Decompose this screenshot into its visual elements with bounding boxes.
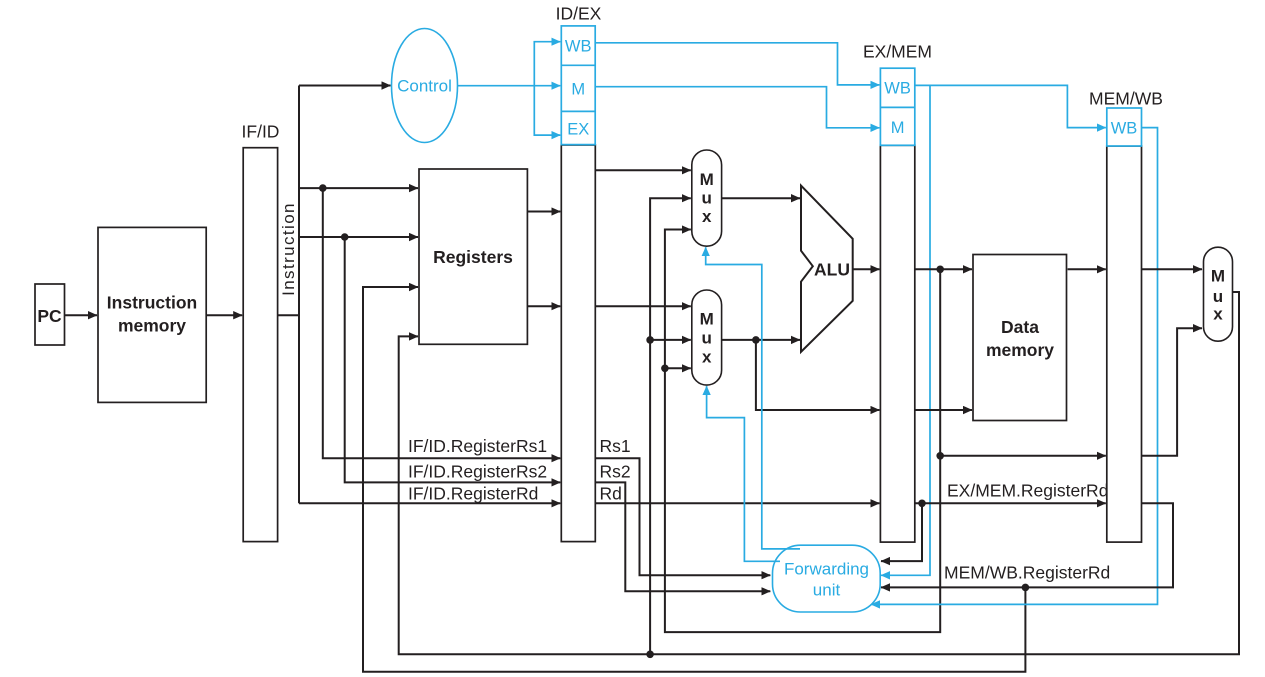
svg-text:x: x <box>702 207 712 226</box>
svg-text:ID/EX: ID/EX <box>556 4 602 24</box>
forwarding unit <box>773 545 881 612</box>
svg-text:EX: EX <box>567 121 589 139</box>
wire ID/EX WB to EX/MEM WB <box>595 43 879 85</box>
junction forward write-back mux B <box>646 336 654 344</box>
wire ID/EX M to EX/MEM M <box>595 87 879 128</box>
junction write-back branch to forwarding muxes <box>646 651 654 659</box>
wire mux B to ALU <box>722 339 800 341</box>
control unit Control <box>392 29 458 143</box>
mux A (ForwardA) <box>692 150 722 246</box>
svg-text:Rs2: Rs2 <box>600 462 631 482</box>
svg-text:IF/ID.RegisterRs1: IF/ID.RegisterRs1 <box>408 436 547 456</box>
block Instruction memory <box>98 227 206 402</box>
mux write-back <box>1204 247 1233 341</box>
svg-text:M: M <box>700 170 714 189</box>
wire forward from write-back to mux B <box>650 339 691 341</box>
register PC <box>35 284 65 345</box>
block Registers <box>419 169 527 344</box>
pipeline register EX/MEM <box>863 42 932 543</box>
svg-text:u: u <box>702 189 712 208</box>
wire EX/MEM.RegisterRd to MEM/WB <box>915 481 1109 504</box>
svg-text:EX/MEM.RegisterRd: EX/MEM.RegisterRd <box>947 481 1108 501</box>
svg-text:ALU: ALU <box>814 260 850 280</box>
svg-text:Control: Control <box>397 77 452 96</box>
svg-text:MEM/WB: MEM/WB <box>1089 89 1163 109</box>
svg-text:u: u <box>702 329 712 348</box>
wire Registers read data 2 to ID/EX <box>527 305 560 307</box>
svg-text:IF/ID.RegisterRs2: IF/ID.RegisterRs2 <box>408 462 547 482</box>
wire IF/ID.RegisterRd <box>299 484 560 504</box>
svg-text:M: M <box>571 81 585 99</box>
wire forward from EX/MEM ALU result to mux A <box>665 230 940 633</box>
svg-text:IF/ID: IF/ID <box>242 122 280 142</box>
wire ID/EX read data 1 to mux A <box>595 169 691 171</box>
wire ALU result to EX/MEM <box>853 268 880 270</box>
svg-text:M: M <box>1211 267 1225 286</box>
wire Data memory read data to MEM/WB <box>1068 268 1106 270</box>
wire EX/MEM ALU result to Data memory <box>915 268 972 270</box>
wire mux A to ALU <box>722 197 800 199</box>
svg-text:unit: unit <box>813 581 841 600</box>
wire EX/MEM WB to MEM/WB WB <box>915 85 1106 127</box>
svg-text:x: x <box>1213 305 1223 324</box>
pipeline register ID/EX control fields WB M EX <box>561 26 595 145</box>
wire ID/EX read data 2 to mux B <box>595 305 691 307</box>
pipeline register MEM/WB control field WB <box>1107 108 1142 146</box>
wire Rs1 to forwarding unit <box>595 436 770 575</box>
svg-text:MEM/WB.RegisterRd: MEM/WB.RegisterRd <box>944 563 1110 583</box>
wire MEM/WB.RegisterRd to forwarding unit <box>881 503 1173 587</box>
svg-text:x: x <box>702 348 712 367</box>
wire MEM/WB WB to forwarding unit <box>871 128 1158 605</box>
junction MEM/WB.RegisterRd branch <box>1022 584 1030 592</box>
svg-text:memory: memory <box>118 316 186 336</box>
wire Rs2 to forwarding unit <box>595 462 770 592</box>
pipeline register MEM/WB <box>1089 89 1163 543</box>
svg-text:WB: WB <box>884 80 911 98</box>
svg-text:Instruction: Instruction <box>107 293 197 313</box>
wire EX/MEM.RegisterRd to forwarding unit <box>881 503 922 561</box>
junction Rs1 branch <box>319 184 327 192</box>
junction ALU result to MEM/WB <box>936 452 944 460</box>
pipeline register ID/EX <box>556 4 602 542</box>
wire Control to ID/EX WB M EX <box>458 42 561 135</box>
pipeline register IF/ID <box>242 122 280 542</box>
wire write register from MEM/WB.RegisterRd <box>363 287 1025 672</box>
wire PC to Instruction memory <box>65 314 98 316</box>
wire write data from write-back mux <box>399 292 1239 654</box>
wire Registers read data 1 to ID/EX <box>527 211 560 213</box>
wire MEM/WB read data to write-back mux <box>1142 268 1203 270</box>
svg-text:memory: memory <box>986 340 1054 360</box>
svg-text:M: M <box>700 310 714 329</box>
wire forward from EX/MEM ALU result to mux B <box>665 367 691 369</box>
svg-text:Instruction: Instruction <box>279 202 298 296</box>
svg-text:Registers: Registers <box>433 247 513 267</box>
wire forward from write-back to mux A <box>650 198 691 654</box>
wire read register 1 <box>299 187 418 189</box>
wire store data to EX/MEM <box>756 340 880 410</box>
junction Rs2 branch <box>341 233 349 241</box>
wire forwarding unit to mux A control <box>706 247 800 549</box>
wire EX/MEM WB to forwarding unit <box>881 85 930 575</box>
svg-text:Rs1: Rs1 <box>600 436 631 456</box>
wire instruction to Control <box>299 85 391 87</box>
wire Rd to EX/MEM <box>595 484 879 504</box>
svg-text:IF/ID.RegisterRd: IF/ID.RegisterRd <box>408 484 538 504</box>
svg-text:Forwarding: Forwarding <box>784 560 869 579</box>
svg-text:M: M <box>891 119 905 137</box>
svg-text:EX/MEM: EX/MEM <box>863 42 932 62</box>
wire forwarding unit to mux B control <box>707 386 780 561</box>
wire store data to Data memory <box>915 409 972 411</box>
svg-text:Rd: Rd <box>600 484 622 504</box>
wire IF/ID.RegisterRs2 <box>345 237 561 482</box>
mux B (ForwardB) <box>692 290 722 385</box>
wire MEM/WB ALU result to write-back mux <box>1142 328 1203 456</box>
wire instruction bus <box>298 86 300 504</box>
junction EX/MEM.RegisterRd branch <box>918 500 926 508</box>
svg-text:Data: Data <box>1001 317 1039 337</box>
alu ALU <box>801 186 853 352</box>
junction store data branch <box>752 336 760 344</box>
wire EX/MEM ALU result to MEM/WB <box>940 455 1106 457</box>
junction forward EX/MEM mux B <box>661 365 669 373</box>
node Instruction field <box>278 202 299 315</box>
wire read register 2 <box>299 236 418 238</box>
svg-text:u: u <box>1213 287 1223 306</box>
svg-text:WB: WB <box>565 38 592 56</box>
wire IF/ID.RegisterRs1 <box>323 188 561 458</box>
svg-text:PC: PC <box>37 306 62 326</box>
wire Instruction memory to IF/ID <box>206 314 242 316</box>
junction EX/MEM ALU result branch down <box>936 266 944 274</box>
block Data memory <box>973 255 1067 421</box>
svg-text:WB: WB <box>1111 120 1138 138</box>
pipeline register EX/MEM control fields WB M <box>880 68 914 145</box>
